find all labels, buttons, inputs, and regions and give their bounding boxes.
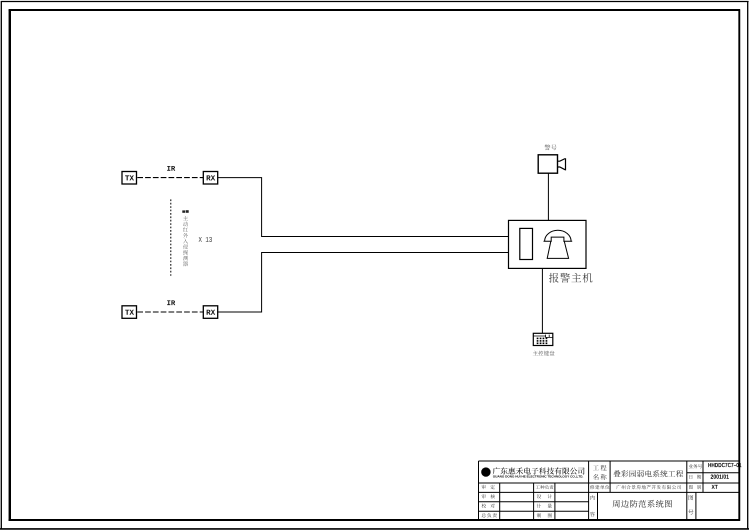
value sheet type XT bbox=[712, 485, 718, 489]
label ye-wu-hao bbox=[689, 464, 702, 468]
company name guangdong-huihe-electronics bbox=[493, 467, 585, 474]
value date bbox=[711, 474, 729, 478]
IR beam label bottom bbox=[167, 300, 175, 305]
wire RX2 to alarm host bbox=[218, 253, 509, 313]
keypad label zhu-kong-jian-pan bbox=[533, 351, 555, 356]
title block grid bbox=[479, 461, 740, 511]
label jiao-dui bbox=[482, 504, 495, 508]
label ji-liang bbox=[537, 504, 552, 508]
IR beam dashed line bottom bbox=[137, 311, 203, 313]
label shen-he bbox=[482, 494, 495, 498]
label tu-bie bbox=[689, 485, 701, 489]
detector TX1 label bbox=[125, 175, 134, 180]
value job number bbox=[708, 463, 741, 467]
project name die-cai-yuan bbox=[614, 470, 684, 477]
detector RX2 box bbox=[203, 306, 217, 319]
label zhi-tu bbox=[537, 513, 552, 517]
small bold annotation blob bbox=[182, 210, 188, 213]
repeat dotted extension line bbox=[170, 199, 172, 275]
keypad box bbox=[533, 333, 553, 345]
label shen-ding bbox=[482, 485, 495, 489]
quantity label X 13 bbox=[199, 237, 212, 242]
builder name guangzhou-hejing bbox=[616, 485, 681, 489]
wire siren to alarm host bbox=[547, 173, 549, 220]
label gong-cheng-ming-cheng bbox=[593, 465, 607, 480]
detector TX2 label bbox=[125, 310, 134, 315]
label she-ji bbox=[537, 494, 552, 498]
wire alarm host to keypad bbox=[541, 268, 543, 333]
label cheng-jian-dan-wei bbox=[590, 485, 609, 489]
alarm host box bbox=[509, 220, 587, 268]
label tu-hao bbox=[688, 495, 693, 514]
label zong-fu-ze bbox=[482, 513, 497, 517]
detector TX2 box bbox=[122, 306, 137, 319]
company logo circle bbox=[481, 467, 490, 476]
siren body bbox=[538, 155, 557, 173]
sheet title zhou-bian-fang-fan bbox=[613, 500, 672, 508]
keypad top line and display notch bbox=[533, 335, 553, 338]
vertical label active-infrared-intrusion-detector bbox=[183, 216, 188, 266]
label nei-rong bbox=[590, 495, 595, 516]
alarm host bell trapezoid bbox=[547, 237, 568, 258]
IR beam label top bbox=[167, 166, 175, 171]
detector RX1 label bbox=[207, 175, 216, 180]
alarm host inner rectangle bbox=[520, 228, 533, 259]
siren label jing-hao bbox=[545, 144, 557, 150]
IR beam dashed line top bbox=[137, 177, 203, 179]
label gong-zhong-fu-ze bbox=[536, 485, 554, 489]
alarm host label bao-jing-zhu-ji bbox=[549, 273, 593, 283]
label ri-qi bbox=[689, 475, 701, 479]
keypad buttons bbox=[537, 338, 548, 345]
detector RX1 box bbox=[203, 172, 217, 185]
detector TX1 box bbox=[122, 172, 137, 185]
detector RX2 label bbox=[207, 310, 216, 315]
siren horn bbox=[558, 158, 566, 170]
wire RX1 to alarm host bbox=[218, 178, 509, 237]
alarm host bell arc bbox=[544, 230, 573, 241]
company english tagline bbox=[493, 475, 583, 478]
